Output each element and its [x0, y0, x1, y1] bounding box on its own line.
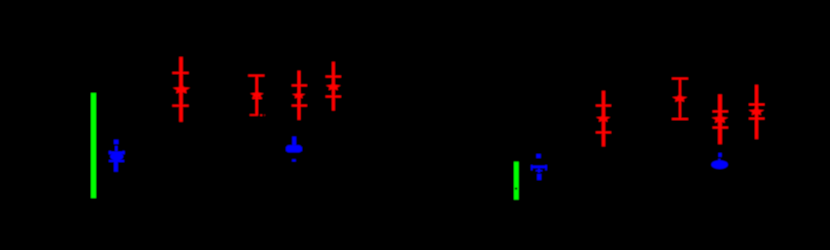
star marker L4 — [326, 82, 341, 90]
error bar R4 — [749, 85, 765, 139]
blue horizontal bar with caps B3 — [531, 165, 547, 171]
blue ellipse marker R3b — [711, 160, 728, 169]
star marker L1 — [173, 84, 190, 93]
star marker R3 — [712, 114, 728, 123]
blue point B2 dashed error bar — [292, 137, 296, 162]
green band G2 — [514, 162, 519, 200]
star marker L3 — [292, 92, 305, 99]
dark dot on band G2 — [515, 188, 517, 190]
dashed bottom cap L2 — [250, 114, 266, 116]
star marker R2 — [672, 94, 687, 102]
error bar L2 — [248, 75, 264, 116]
blue blob B2 (marker + caps) — [286, 145, 301, 152]
blue caps B1 — [109, 151, 125, 162]
star marker R1 — [596, 114, 610, 122]
error bar R1 — [596, 91, 611, 147]
error bar R3 — [713, 94, 729, 144]
error bar R2 — [672, 78, 688, 120]
error bar L1 — [172, 57, 188, 122]
error bar L4 — [326, 62, 341, 111]
narrow inner cap L2 — [252, 98, 262, 100]
blue plus marker B3 — [536, 169, 543, 173]
star marker R4 — [749, 107, 764, 115]
blue ellipse marker B1 — [110, 152, 123, 160]
star marker L2 — [250, 91, 264, 98]
green band G1 — [91, 93, 96, 198]
blue point R3b dashed error bar — [718, 153, 722, 161]
blue point B3 dashed error bar — [536, 154, 541, 180]
error bar L3 — [292, 71, 307, 120]
blue point B1 dashed error bar — [114, 140, 119, 172]
